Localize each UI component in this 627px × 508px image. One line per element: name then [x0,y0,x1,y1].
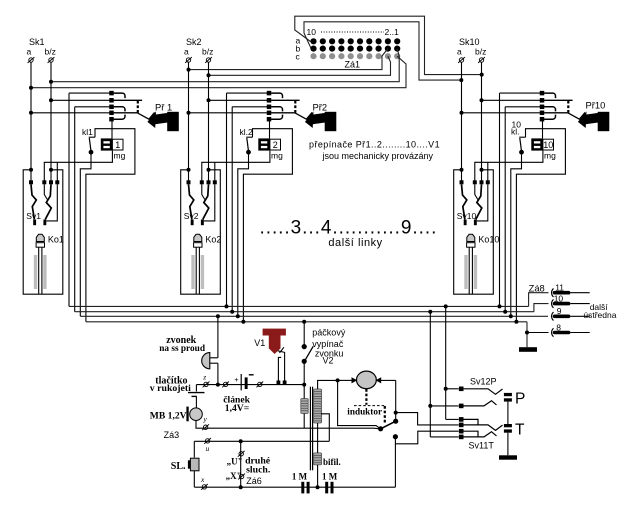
svg-text:2..1: 2..1 [385,27,399,37]
svg-text:a: a [457,47,462,57]
svg-text:Zá3: Zá3 [164,430,180,440]
svg-text:u: u [206,444,210,453]
svg-text:mg: mg [271,150,283,160]
svg-text:„X": „X" [226,471,242,481]
svg-text:10: 10 [543,140,553,150]
svg-text:10: 10 [307,27,317,37]
svg-text:Sv1: Sv1 [26,211,41,221]
svg-text:Ko10: Ko10 [478,235,499,245]
svg-text:Zá6: Zá6 [246,476,262,486]
svg-text:páčkový: páčkový [312,328,346,338]
svg-text:ústředna: ústředna [583,310,616,320]
svg-text:a: a [184,47,189,57]
svg-text:Sk10: Sk10 [459,37,480,47]
svg-text:y: y [203,414,208,423]
svg-text:vypínač: vypínač [312,339,344,349]
svg-text:V2: V2 [323,356,334,366]
svg-text:kl.2: kl.2 [240,127,254,137]
svg-text:mg: mg [544,150,556,160]
svg-text:.....3...4...........9....: .....3...4...........9.... [260,218,438,239]
svg-text:1 M: 1 M [322,471,338,481]
svg-text:b/z: b/z [475,47,486,57]
svg-text:x: x [200,475,205,484]
svg-text:b/z: b/z [202,47,213,57]
svg-text:bifil.: bifil. [323,457,341,467]
svg-text:z: z [202,372,206,381]
svg-text:1 M: 1 M [292,471,308,481]
svg-text:Sv12P: Sv12P [470,377,497,387]
svg-text:Sv2: Sv2 [184,211,199,221]
svg-text:kl.: kl. [511,127,520,137]
svg-text:přepínače Př1..2........10....: přepínače Př1..2........10....V1 [309,139,440,149]
svg-text:„U": „U" [227,456,243,466]
svg-text:2: 2 [273,140,278,150]
svg-text:8: 8 [556,322,561,332]
svg-text:v rukojeti: v rukojeti [150,383,191,394]
svg-text:SL.: SL. [171,461,186,472]
svg-text:1,4V=: 1,4V= [225,403,249,414]
svg-text:kl1: kl1 [82,127,93,137]
svg-text:+: + [234,375,239,384]
svg-text:Ko1: Ko1 [48,235,64,245]
svg-text:Ko2: Ko2 [205,235,221,245]
svg-text:Zá1: Zá1 [345,60,361,70]
svg-text:Př10: Př10 [586,100,606,111]
svg-text:Sk2: Sk2 [186,37,202,47]
svg-text:induktor: induktor [347,406,382,416]
svg-text:Sv10: Sv10 [457,211,477,221]
svg-text:Zá8: Zá8 [529,282,545,293]
svg-text:další linky: další linky [328,237,382,249]
svg-text:Př 1: Př 1 [155,101,172,112]
svg-text:na ss proud: na ss proud [159,344,206,354]
svg-text:jsou mechanicky provázány: jsou mechanicky provázány [322,151,434,161]
svg-text:V1: V1 [254,338,265,348]
svg-text:MB 1,2V: MB 1,2V [150,410,187,421]
svg-text:1: 1 [115,140,120,150]
svg-text:b/z: b/z [45,47,56,57]
svg-text:Sv11T: Sv11T [469,441,495,451]
svg-text:sluch.: sluch. [246,465,271,476]
svg-text:a: a [27,47,32,57]
svg-text:11: 11 [555,283,564,293]
svg-text:Sk1: Sk1 [29,37,45,47]
svg-text:T: T [515,421,525,438]
svg-text:10: 10 [554,293,564,303]
svg-text:mg: mg [114,150,126,160]
svg-text:P: P [515,390,525,407]
svg-text:9: 9 [557,306,562,316]
svg-text:Př2: Př2 [313,101,328,112]
